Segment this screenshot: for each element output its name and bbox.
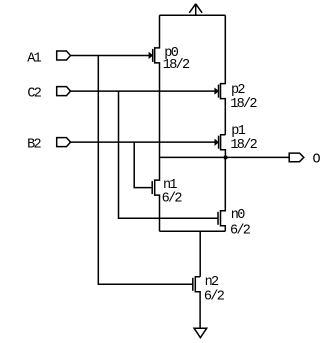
wire C2 to p2 gate [70,90,218,92]
wire B2 to p1 gate [70,141,218,143]
transistor p2 [221,15,226,135]
svg-text:18/2: 18/2 [230,138,257,153]
svg-text:18/2: 18/2 [230,97,257,112]
svg-text:6/2: 6/2 [230,223,251,238]
wire B2 to n1 gate [134,142,152,188]
svg-text:6/2: 6/2 [162,192,183,207]
wire A1 to p0 gate [70,55,152,57]
vdd symbol [189,4,202,15]
svg-text:p2: p2 [231,83,245,98]
input pin B2 [57,138,71,147]
wire output node [160,156,290,158]
svg-text:p1: p1 [231,124,245,139]
wire C2 to n0 gate [119,91,219,218]
output pin O [289,153,304,162]
transistor p1 [221,135,226,158]
transistor n0 [221,157,226,231]
svg-text:C2: C2 [27,86,41,101]
ground [194,328,207,338]
svg-text:n2: n2 [205,275,219,290]
svg-text:n0: n0 [231,208,245,223]
input pin A1 [57,51,71,60]
wire A1 to n2 gate [98,56,193,285]
vdd rail [159,14,225,16]
svg-text:A1: A1 [27,51,41,66]
junction dot output [224,156,228,160]
wire n2 drain [199,231,201,277]
svg-text:6/2: 6/2 [204,289,225,304]
svg-text:18/2: 18/2 [163,58,190,73]
svg-text:B2: B2 [27,137,41,152]
transistor p0 [155,15,160,157]
wire internal node [160,230,226,232]
input pin C2 [57,87,71,96]
transistor n1 [155,157,160,231]
transistor n2 [195,277,200,328]
